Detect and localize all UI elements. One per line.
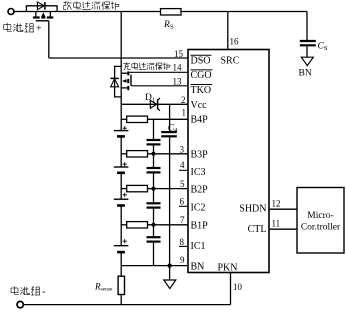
node 电池组- terminal bbox=[17, 301, 23, 307]
wire Cs to ground bbox=[306, 46, 308, 57]
wire CGO pin14 bbox=[128, 71, 188, 73]
svg-text:B4P: B4P bbox=[191, 115, 209, 126]
label 充电过流保护 bbox=[123, 62, 170, 70]
label Rs bbox=[163, 20, 174, 31]
pin label B3P bbox=[191, 149, 209, 160]
resistor Rs bbox=[161, 9, 182, 15]
svg-text:9: 9 bbox=[180, 255, 185, 265]
wire cap column 2 upper bbox=[169, 104, 171, 132]
svg-text:7: 7 bbox=[180, 215, 185, 225]
wire Q1 main bbox=[26, 11, 160, 13]
svg-text:IC1: IC1 bbox=[191, 241, 206, 252]
battery cell B3 plates bbox=[114, 167, 129, 173]
ground below C4 bbox=[164, 280, 176, 289]
svg-text:10: 10 bbox=[233, 282, 243, 292]
wire Q1 gate to DSO bbox=[48, 21, 50, 58]
capacitor filter C5 bbox=[147, 237, 161, 241]
pin 10 bbox=[233, 282, 243, 292]
svg-text:BN: BN bbox=[299, 69, 312, 79]
svg-text:B1P: B1P bbox=[191, 221, 209, 232]
svg-text:4: 4 bbox=[180, 160, 185, 170]
svg-text:Cor.troller: Cor.troller bbox=[301, 223, 341, 233]
capacitor filter C1 bbox=[147, 140, 161, 144]
wire CTL pin11 bbox=[269, 228, 297, 230]
node junction col1-B1P bbox=[152, 223, 156, 227]
capacitor filter C2 bbox=[147, 168, 161, 172]
svg-text:Micro-: Micro- bbox=[307, 211, 333, 221]
battery cell B3 plus bbox=[123, 162, 127, 166]
wire BN pin9 bbox=[121, 265, 188, 267]
node 电池组+ terminal bbox=[8, 9, 14, 15]
pin 16 bbox=[230, 37, 240, 47]
diode Q1 body diode bbox=[37, 2, 45, 10]
wire IC3 pin4 stub bbox=[179, 169, 188, 171]
battery cell B1 plus bbox=[123, 239, 127, 243]
svg-text:5: 5 bbox=[180, 179, 185, 189]
diode D1 bbox=[150, 98, 160, 111]
transistor Q2 source stub bbox=[121, 87, 127, 89]
node junction col1-B2P bbox=[152, 187, 156, 191]
label BN top-right bbox=[299, 69, 312, 79]
wire DSO pin15 bbox=[49, 57, 188, 59]
wire branch row pin5 right bbox=[148, 188, 189, 190]
wire Vcc pin2 bbox=[121, 103, 188, 105]
wire branch row pin5 left bbox=[121, 188, 127, 190]
pin label DSO bbox=[191, 55, 212, 66]
wire TKO pin13 bbox=[131, 85, 188, 87]
svg-text:11: 11 bbox=[272, 219, 281, 229]
label D1 bbox=[145, 93, 155, 104]
wire cap column 2 lower bbox=[169, 136, 171, 280]
wire SRC pin16 bbox=[227, 12, 229, 50]
wire branch row pin3 left bbox=[121, 153, 127, 155]
label C4 bbox=[168, 124, 178, 135]
battery cell B2 plates bbox=[114, 199, 129, 205]
label 电池组- bbox=[11, 286, 45, 297]
pin 5 bbox=[180, 179, 185, 189]
transistor Q1 channel bars bbox=[33, 16, 53, 18]
wire SHDN pin12 bbox=[269, 208, 297, 210]
svg-text:CGO: CGO bbox=[191, 70, 212, 81]
svg-text:2: 2 bbox=[181, 95, 186, 105]
transistor Q1 body-diode loop bbox=[26, 6, 57, 12]
ground BN top-right bbox=[301, 57, 313, 65]
pin label IC3 bbox=[191, 167, 206, 178]
pin label TKO bbox=[191, 85, 213, 96]
pin 8 bbox=[180, 237, 185, 247]
svg-text:8: 8 bbox=[180, 237, 185, 247]
pin 6 bbox=[180, 196, 185, 206]
svg-text:TKO: TKO bbox=[191, 85, 212, 96]
svg-text:+: + bbox=[36, 24, 42, 35]
svg-text:IC3: IC3 bbox=[191, 167, 206, 178]
transistor Q2 body arrow bbox=[122, 79, 128, 83]
pin label PKN bbox=[218, 263, 238, 274]
transistor Q1 body arrow bbox=[41, 12, 45, 16]
resistor filter row pin3 bbox=[127, 151, 148, 157]
svg-text:SRC: SRC bbox=[221, 56, 240, 67]
svg-text:16: 16 bbox=[230, 37, 240, 47]
svg-text:14: 14 bbox=[173, 63, 183, 73]
pin 2 bbox=[181, 95, 186, 105]
svg-text:-: - bbox=[42, 287, 45, 298]
resistor filter row pin7 bbox=[127, 222, 148, 228]
capacitor Cs bbox=[300, 41, 316, 45]
wire BN to Rsense bbox=[120, 266, 122, 277]
capacitor C4 bbox=[161, 132, 177, 136]
battery cell B1 plates bbox=[114, 246, 129, 252]
transistor Q1 drain stub bbox=[35, 12, 37, 17]
pin label CTL bbox=[248, 224, 267, 235]
wire battery column bbox=[120, 104, 122, 265]
wire bottom rail bbox=[24, 304, 231, 306]
node junction col1-B3P bbox=[152, 152, 156, 156]
pin 4 bbox=[180, 160, 185, 170]
label 放电过流保护 bbox=[64, 1, 120, 10]
battery cell B4 plates bbox=[114, 131, 129, 137]
wire branch row pin7 left bbox=[121, 224, 127, 226]
transistor Q1 source stub bbox=[49, 12, 51, 17]
wire IC1 pin8 stub bbox=[179, 245, 188, 247]
wire branch row pin1 right bbox=[148, 118, 189, 120]
battery cell B2 plus bbox=[123, 193, 127, 197]
wire branch row pin1 left bbox=[121, 118, 127, 120]
svg-text:13: 13 bbox=[173, 76, 183, 86]
svg-text:3: 3 bbox=[180, 144, 185, 154]
svg-text:BN: BN bbox=[191, 261, 205, 272]
pin 15 bbox=[174, 49, 184, 59]
pin 11 bbox=[272, 219, 281, 229]
pin label SHDN bbox=[239, 204, 266, 215]
svg-text:DSO: DSO bbox=[191, 56, 211, 67]
svg-text:Vcc: Vcc bbox=[191, 100, 208, 111]
pin label IC1 bbox=[191, 241, 206, 252]
pin label BN bbox=[191, 261, 205, 272]
wire cap column 1 bbox=[153, 119, 155, 265]
pin 12 bbox=[272, 199, 281, 209]
resistor filter row pin1 bbox=[127, 116, 148, 122]
transistor Q2 drain stub bbox=[121, 72, 127, 74]
wire IC2 pin6 stub bbox=[179, 205, 188, 207]
pin 1 bbox=[182, 108, 187, 118]
pin label IC2 bbox=[191, 203, 206, 214]
pin label B2P bbox=[191, 184, 209, 195]
transistor Q1 gate bar bbox=[36, 20, 49, 22]
svg-text:1: 1 bbox=[182, 108, 187, 118]
transistor Q2 channel bars bbox=[127, 71, 129, 90]
capacitor filter C3 bbox=[147, 203, 161, 207]
diode Q2 body diode bbox=[110, 78, 118, 86]
wire Rsense to bottom bbox=[120, 295, 122, 305]
svg-text:B2P: B2P bbox=[191, 184, 209, 195]
resistor Rsense bbox=[118, 276, 124, 294]
svg-text:PKN: PKN bbox=[218, 263, 238, 274]
op-amp IC U1 outline bbox=[188, 50, 269, 273]
pin 7 bbox=[180, 215, 185, 225]
wire Rs to right bbox=[181, 11, 307, 13]
battery cell B4 plus bbox=[123, 126, 127, 130]
wire branch row pin7 right bbox=[148, 224, 189, 226]
pin label B1P bbox=[191, 221, 209, 232]
pin label SRC bbox=[221, 56, 240, 67]
svg-text:CTL: CTL bbox=[248, 224, 267, 235]
wire PKN pin10 bbox=[230, 273, 232, 305]
svg-text:B3P: B3P bbox=[191, 149, 209, 160]
transistor Q2 body-diode loop bbox=[115, 66, 122, 97]
wire Cs lead bbox=[306, 12, 308, 41]
pin label Vcc bbox=[191, 100, 208, 111]
pin 3 bbox=[180, 144, 185, 154]
transistor Q2 gate bar bbox=[130, 75, 132, 86]
svg-text:SHDN: SHDN bbox=[239, 204, 266, 215]
node junction col2-BN bbox=[167, 263, 171, 267]
wire trunk bbox=[120, 12, 122, 105]
diagram Micro-Controller box bbox=[297, 188, 344, 254]
svg-text:12: 12 bbox=[272, 199, 281, 209]
label Rsense bbox=[94, 282, 113, 293]
svg-text:6: 6 bbox=[180, 196, 185, 206]
resistor filter row pin5 bbox=[127, 185, 148, 191]
wire branch row pin3 right bbox=[148, 153, 189, 155]
pin 14 bbox=[173, 63, 183, 73]
svg-text:IC2: IC2 bbox=[191, 203, 206, 214]
pin 13 bbox=[173, 76, 183, 86]
label Cs bbox=[318, 42, 328, 53]
pin 9 bbox=[180, 255, 185, 265]
label 电池组+ bbox=[4, 23, 42, 35]
wire battery+ to Q1 bbox=[14, 11, 26, 13]
label Micro-Controller bbox=[301, 211, 341, 233]
pin label CGO bbox=[191, 70, 213, 81]
pin label B4P bbox=[191, 115, 209, 126]
